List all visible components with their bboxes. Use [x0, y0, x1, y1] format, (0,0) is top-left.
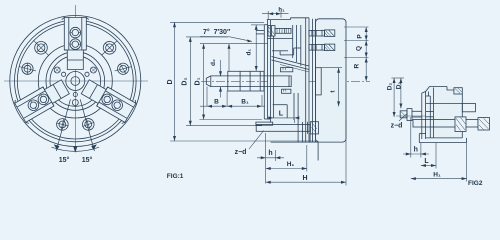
- long rear bolt: [413, 120, 478, 128]
- svg-text:H₁: H₁: [287, 161, 295, 168]
- wedge diagonals: [272, 57, 310, 67]
- d1 dim: [255, 25, 257, 71]
- socket upper-right: [102, 40, 117, 55]
- front face: [421, 93, 423, 139]
- svg-text:15°: 15°: [82, 156, 93, 164]
- horizontal centerline: [4, 80, 148, 82]
- sleeve ext arrow line: [228, 44, 230, 72]
- PQR chain: [344, 26, 369, 28]
- center arrow: [74, 147, 77, 152]
- DIMENSIONS middle: [170, 11, 369, 186]
- D2 dim: [189, 37, 191, 126]
- arrows: [173, 22, 176, 27]
- guide circle 2: [50, 56, 101, 107]
- step front top: [429, 92, 431, 97]
- body shade fig2: [426, 87, 463, 138]
- centerline stub: [396, 115, 434, 117]
- rim circle: [15, 20, 137, 142]
- body back face: [305, 18, 307, 142]
- d2 dim: [220, 60, 222, 76]
- ext line y43.7: [200, 43, 268, 45]
- socket right: [113, 59, 134, 78]
- body top: [267, 19, 291, 21]
- body shade: [268, 20, 310, 143]
- svg-text:D₁: D₁: [395, 82, 402, 90]
- svg-text:H₁: H₁: [433, 172, 441, 179]
- svg-text:h₁: h₁: [278, 8, 285, 14]
- svg-text:15°: 15°: [59, 156, 70, 164]
- svg-text:D₂: D₂: [182, 77, 189, 85]
- D dim: [174, 22, 176, 141]
- h1 dim: [267, 11, 269, 20]
- boss circle: [38, 44, 112, 118]
- front small bolt: [400, 111, 407, 118]
- MIDDLE FIGURE FIG:1: [201, 18, 370, 161]
- rear stud 1: [309, 30, 325, 36]
- lower hole right: [80, 116, 97, 132]
- 7deg leader: [200, 37, 252, 42]
- jaw grip block bottom: [282, 89, 291, 93]
- H dim: [345, 120, 347, 186]
- top cap screw: [268, 26, 275, 36]
- h dim: [265, 133, 267, 184]
- small hole bottom: [72, 100, 78, 106]
- svg-text:D₂: D₂: [387, 83, 394, 91]
- body bottom: [271, 141, 319, 143]
- D1 dim: [203, 44, 205, 120]
- svg-text:R: R: [354, 64, 361, 69]
- bolt hole lines in front panel: [426, 111, 434, 113]
- svg-text:H: H: [302, 175, 307, 182]
- adapter plate verticals: [311, 19, 313, 142]
- svg-text:d₁: d₁: [246, 49, 253, 56]
- t dim: [321, 67, 342, 69]
- small hole upper-right: [90, 67, 96, 73]
- dimension arrowheads: [173, 12, 368, 184]
- body bottom: [426, 137, 463, 139]
- 15 deg lines: [56, 99, 70, 151]
- arc arrow right: [92, 145, 96, 149]
- small holes: [54, 67, 60, 73]
- top back bolt head: [454, 88, 462, 94]
- mid hatched head: [455, 117, 466, 132]
- svg-text:z−d: z−d: [235, 149, 247, 156]
- labels middle: [167, 8, 364, 182]
- L dim: [268, 117, 294, 119]
- center hole: [71, 77, 80, 86]
- pinion pivots: [62, 72, 66, 76]
- svg-text:B: B: [214, 99, 219, 106]
- B dim: [206, 87, 208, 107]
- dimension arc: [52, 147, 100, 151]
- jaw lower-left: [13, 75, 72, 124]
- svg-text:L: L: [424, 158, 429, 165]
- FRONT VIEW GROUP: [4, 5, 148, 152]
- L dim fig2: [435, 143, 437, 169]
- svg-text:L: L: [279, 110, 284, 117]
- svg-text:FIG2: FIG2: [468, 180, 483, 187]
- jaw lower-right: [79, 75, 138, 124]
- rear stud 2: [309, 45, 325, 51]
- lower holes: [56, 119, 68, 131]
- front face: [263, 25, 265, 119]
- jaw grip block top: [281, 68, 293, 72]
- z-d leader: [249, 131, 264, 150]
- svg-text:D: D: [167, 79, 174, 84]
- outer circle: [10, 16, 141, 147]
- svg-text:h: h: [268, 150, 272, 157]
- jaws: [62, 17, 89, 69]
- sockets on bolt circle: [34, 40, 49, 55]
- zd leader fig2: [399, 114, 407, 121]
- center circle: [66, 72, 85, 91]
- H1 dim: [306, 145, 308, 172]
- socket left: [19, 63, 36, 75]
- far head: [478, 118, 490, 131]
- svg-text:D₁: D₁: [195, 77, 202, 85]
- svg-text:7° 7′30″: 7° 7′30″: [203, 28, 231, 36]
- sleeve: [228, 71, 264, 91]
- test bar: [206, 76, 291, 87]
- svg-text:d₂: d₂: [210, 59, 217, 66]
- interior bottom lines: [293, 93, 295, 120]
- svg-text:z−d: z−d: [391, 123, 403, 130]
- svg-text:FIG:1: FIG:1: [167, 173, 184, 180]
- spindle backplate block: [316, 19, 346, 142]
- H1 dim fig2: [466, 143, 468, 182]
- top chamfer: [422, 87, 447, 94]
- spigot upper: [462, 103, 475, 111]
- counterbore hole lines: [257, 30, 265, 32]
- jaw tower verticals: [292, 25, 294, 58]
- guide circle: [46, 52, 105, 111]
- svg-text:B₁: B₁: [241, 99, 249, 106]
- top right step: [447, 87, 454, 91]
- svg-text:h: h: [414, 147, 418, 154]
- D dims fig2: [391, 77, 404, 79]
- back face: [461, 94, 463, 138]
- RIGHT FIGURE FIG2: [396, 87, 490, 143]
- flange lower front: [264, 118, 270, 120]
- centerline: [201, 80, 370, 82]
- svg-text:Q: Q: [356, 46, 363, 51]
- spigot: [316, 68, 322, 95]
- svg-text:P: P: [357, 34, 364, 39]
- arc arrow left: [55, 145, 59, 149]
- vertical centerline: [74, 5, 76, 148]
- rim circle 2: [17, 23, 133, 139]
- bottom z-d bolt: [256, 122, 273, 125]
- h dim fig2: [410, 117, 412, 158]
